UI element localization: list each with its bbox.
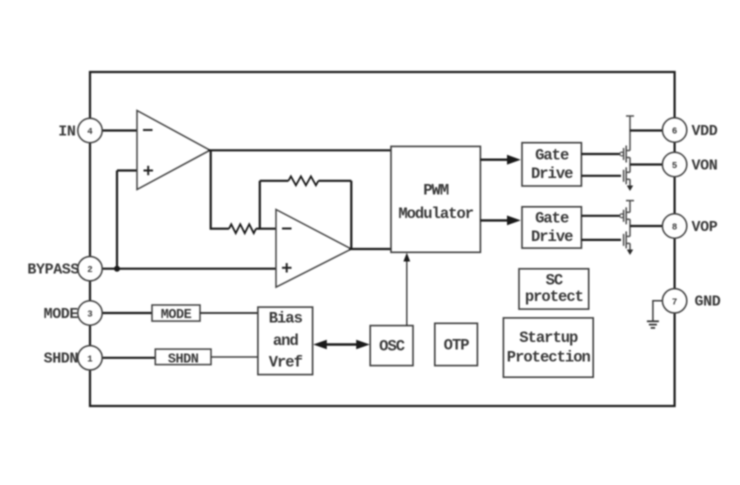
resistor R2 (feedback): [288, 176, 318, 185]
wire: bridge 1 to VDD pin: [630, 129, 662, 131]
wire: bridge 1 midpoint to VON pin: [630, 163, 662, 165]
svg-text:protect: protect: [525, 288, 583, 306]
junction dot on BYPASS net: [114, 266, 120, 272]
svg-text:Drive: Drive: [531, 165, 573, 183]
svg-text:MODE: MODE: [161, 308, 192, 323]
svg-text:Startup: Startup: [519, 329, 578, 347]
svg-text:OSC: OSC: [379, 338, 405, 356]
svg-text:4: 4: [87, 127, 93, 137]
svg-text:and: and: [273, 332, 299, 350]
svg-text:Drive: Drive: [531, 228, 573, 246]
wire: feedback top left segment: [260, 180, 289, 182]
Gate Drive block U4: [522, 143, 581, 186]
MODE input cell: [152, 305, 200, 323]
svg-text:3: 3: [87, 310, 92, 320]
wire: BYPASS pin to U2 non-inverting input: [102, 268, 276, 270]
wire: SHDN pin to SHDN cell: [102, 357, 155, 359]
wire: SHDN cell to Bias block: [211, 356, 258, 358]
svg-text:SHDN: SHDN: [168, 352, 199, 367]
pin 4 IN: [78, 118, 102, 142]
transistor Q3 (PMOS high side, VOP): [620, 207, 630, 236]
svg-text:OTP: OTP: [444, 337, 470, 355]
OTP block U8: [435, 323, 478, 365]
svg-text:1: 1: [87, 354, 93, 364]
VDD supply tick (bridge 2): [626, 201, 634, 213]
op-amp U1: [137, 111, 210, 190]
svg-text:8: 8: [672, 223, 677, 233]
SHDN input cell: [155, 349, 211, 367]
op-amp U2: [276, 210, 351, 288]
Bias and Vref block U6: [258, 307, 313, 375]
wire: bridge 2 midpoint to VOP pin: [630, 225, 662, 227]
ground symbol: [647, 321, 659, 328]
svg-text:Modulator: Modulator: [398, 205, 473, 223]
svg-text:VOP: VOP: [692, 219, 718, 236]
wire: feedback left vertical: [259, 181, 261, 229]
wire: Gate Drive 2 to Q3 gate: [581, 215, 619, 217]
pin 7 GND: [662, 289, 686, 313]
pin 6 VDD: [662, 118, 686, 142]
wire: U1 non-inverting input vertical down to BYPASS net: [116, 171, 118, 269]
svg-text:6: 6: [672, 127, 677, 137]
wire: Bias to OSC (double arrow): [313, 340, 370, 350]
svg-text:Gate: Gate: [535, 147, 569, 165]
wire: U1 output down to R1: [211, 150, 229, 228]
transistor Q2 (NMOS low side, VON): [624, 167, 634, 191]
pin 2 BYPASS: [78, 257, 102, 281]
pin 5 VON: [662, 152, 686, 176]
transistor Q1 (PMOS high side, VON): [620, 146, 630, 173]
svg-text:Bias: Bias: [269, 309, 303, 327]
svg-text:VON: VON: [692, 157, 718, 174]
wire: R1 to U2 inverting input: [256, 228, 276, 230]
wire: IN pin to U1 inverting input: [102, 129, 137, 131]
wire: Gate Drive 1 to Q1 gate: [581, 153, 619, 155]
wire: OSC to PWM (arrow up): [403, 253, 410, 326]
svg-text:IN: IN: [58, 123, 76, 140]
wire: MODE cell to Bias block: [200, 312, 258, 314]
wire: feedback right vertical to U2 output: [350, 181, 352, 249]
svg-text:GND: GND: [695, 294, 721, 311]
wire: GND pin hook: [653, 301, 663, 321]
Gate Drive block U5: [522, 207, 581, 248]
svg-text:5: 5: [672, 161, 677, 171]
resistor R1: [229, 224, 256, 233]
pin 8 VOP: [662, 214, 686, 238]
wire: Gate Drive 1 to Q2 gate: [581, 175, 621, 177]
svg-text:Vref: Vref: [269, 353, 303, 371]
svg-text:VDD: VDD: [692, 123, 718, 140]
wire: Gate Drive 2 to Q4 gate: [581, 239, 621, 241]
svg-text:BYPASS: BYPASS: [27, 262, 79, 279]
SC protect block U9: [519, 269, 589, 309]
wire: U2 output to PWM Modulator: [349, 248, 391, 250]
wire: feedback top right segment: [318, 180, 351, 182]
IC outer boundary box: [90, 72, 675, 406]
OSC block U7: [370, 326, 413, 366]
svg-text:Protection: Protection: [507, 349, 591, 367]
transistor Q4 (NMOS low side, VOP): [624, 231, 634, 255]
PWM Modulator block U3: [391, 146, 480, 252]
wire: MODE pin to MODE cell: [102, 312, 152, 314]
wire: PWM to Gate Drive 1 (arrow): [480, 155, 520, 165]
Startup Protection block U10: [503, 318, 593, 377]
svg-text:SHDN: SHDN: [44, 351, 79, 368]
svg-text:2: 2: [87, 265, 92, 275]
svg-text:MODE: MODE: [44, 306, 79, 323]
VDD supply tick (bridge 1): [626, 116, 634, 151]
pin 3 MODE: [78, 301, 102, 325]
wire: U1 output to PWM Modulator: [208, 149, 391, 151]
svg-text:PWM: PWM: [423, 181, 449, 199]
svg-text:7: 7: [672, 297, 677, 307]
wire: PWM to Gate Drive 2 (arrow): [480, 216, 520, 226]
pin 1 SHDN: [78, 346, 102, 370]
wire: U1 non-inverting input horizontal: [117, 169, 137, 171]
svg-text:Gate: Gate: [535, 210, 569, 228]
